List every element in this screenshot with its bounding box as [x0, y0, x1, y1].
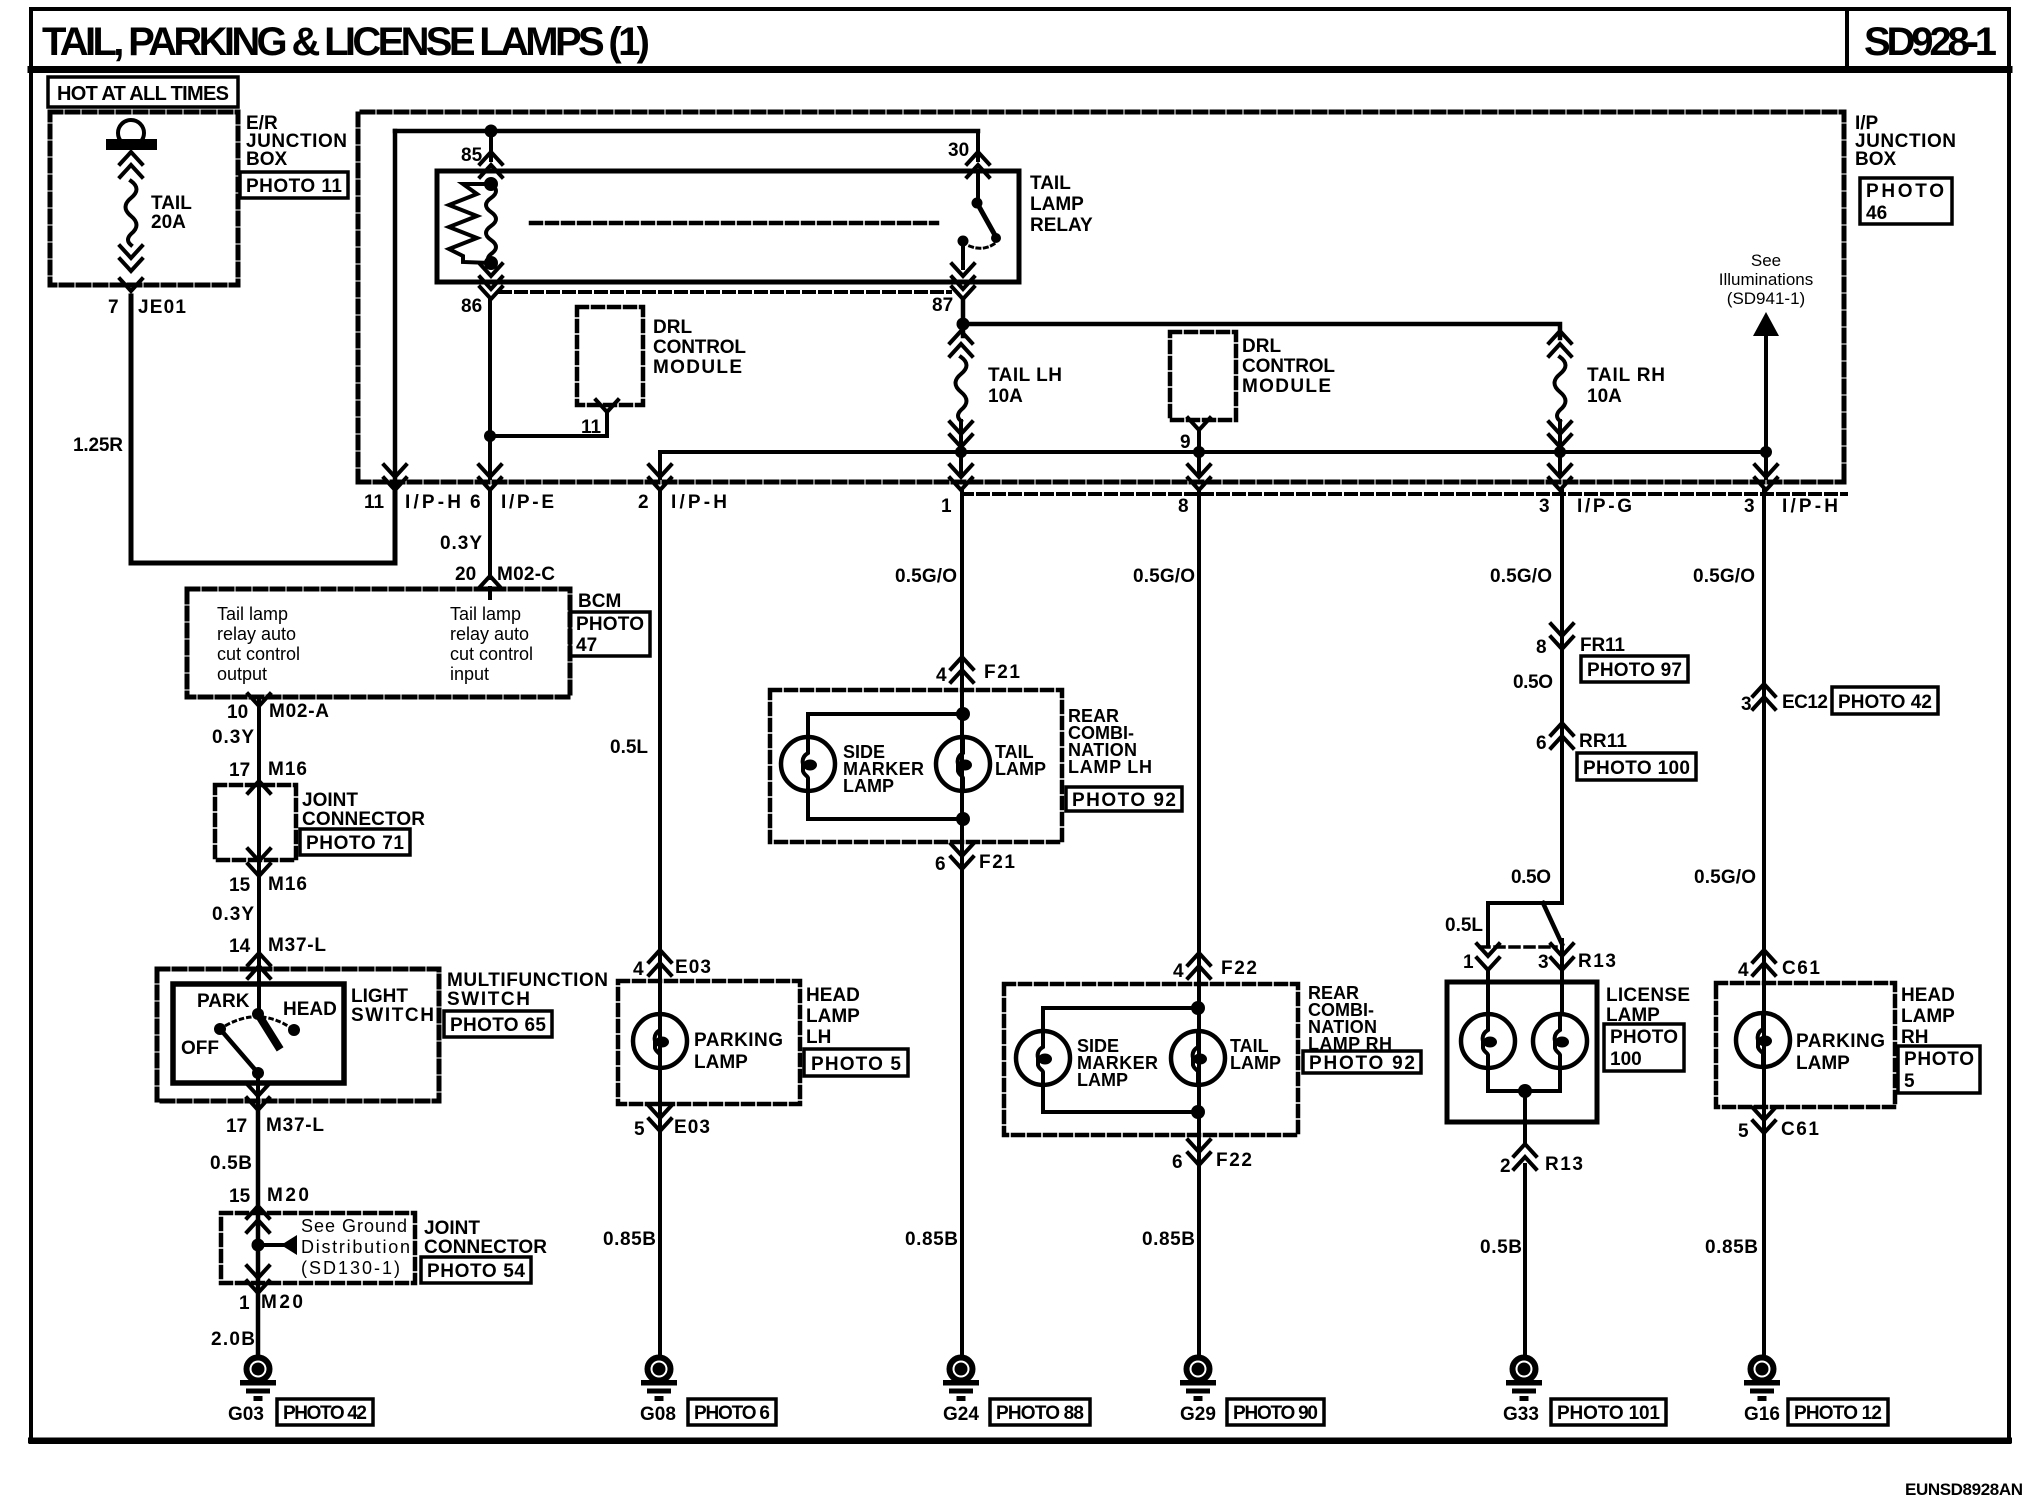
connector 20 M02-C [455, 564, 555, 588]
label 0.5G/O col4 [1133, 566, 1195, 587]
svg-text:14: 14 [229, 936, 251, 957]
label MULTIFUNCTION SWITCH [447, 970, 608, 1010]
label TAIL LAMP RH [1230, 1036, 1281, 1073]
multifunction switch box (dashed) [157, 969, 439, 1101]
label 0.5B col5 [1480, 1237, 1522, 1258]
svg-text:100: 100 [1610, 1049, 1642, 1070]
relay pin 87 [932, 264, 974, 316]
svg-text:0.5B: 0.5B [1480, 1237, 1522, 1258]
head lamp LH box (dashed) [618, 981, 800, 1104]
svg-text:6: 6 [1172, 1152, 1183, 1173]
svg-text:R13: R13 [1545, 1154, 1583, 1175]
wires license bulbs [1488, 970, 1562, 1143]
light switch box [173, 984, 344, 1083]
R13 connector dashed edge [1480, 945, 1556, 949]
label E/R JUNCTION BOX [246, 113, 347, 170]
ground G33 [1503, 1358, 1542, 1426]
svg-text:PHOTO 54: PHOTO 54 [427, 1261, 525, 1282]
label TAIL LAMP [995, 742, 1046, 779]
svg-text:LAMP: LAMP [694, 1052, 748, 1073]
wire top feed bus [395, 131, 978, 478]
node RH branch bottom [1191, 1105, 1205, 1119]
svg-text:0.5G/O: 0.5G/O [1693, 566, 1755, 587]
svg-text:PHOTO: PHOTO [1610, 1027, 1678, 1048]
svg-text:4: 4 [936, 665, 947, 686]
svg-text:CONTROL: CONTROL [1242, 356, 1335, 377]
connector 4 C61 [1738, 950, 1820, 981]
svg-text:0.5G/O: 0.5G/O [1490, 566, 1552, 587]
svg-text:6: 6 [1536, 733, 1547, 754]
ground G24 [943, 1358, 979, 1426]
wire DRL1 pin11 to node [490, 412, 607, 436]
svg-text:E03: E03 [674, 1117, 710, 1138]
node license junction [1518, 1084, 1532, 1098]
label 0.3Y second [212, 904, 254, 925]
sheet number SD928-1 [1864, 20, 1997, 64]
E/R junction box (dashed) [50, 112, 238, 285]
svg-text:0.5G/O: 0.5G/O [1694, 867, 1756, 888]
label 0.5G/O col5 [1490, 566, 1552, 587]
svg-text:SWITCH: SWITCH [447, 989, 530, 1010]
svg-text:15: 15 [229, 1186, 251, 1207]
svg-text:PHOTO 71: PHOTO 71 [306, 833, 404, 854]
dashed connector row lower edge [962, 492, 1846, 496]
svg-text:MODULE: MODULE [1242, 376, 1331, 397]
svg-text:0.5O: 0.5O [1511, 867, 1551, 888]
svg-text:PHOTO 92: PHOTO 92 [1072, 790, 1176, 811]
label LIGHT SWITCH [351, 986, 434, 1026]
svg-text:PHOTO 92: PHOTO 92 [1309, 1053, 1415, 1074]
svg-text:EUNSD8928AN: EUNSD8928AN [1905, 1480, 2023, 1499]
svg-text:M02-C: M02-C [497, 564, 555, 585]
connector 6 I/P-E [470, 465, 554, 513]
connector 5 E03 [634, 1106, 710, 1140]
label PHOTO 71 [300, 829, 410, 855]
label PHOTO 88 [990, 1399, 1090, 1425]
svg-text:PHOTO 5: PHOTO 5 [811, 1054, 901, 1075]
relay pin 30 [948, 131, 989, 177]
joint connector 2 box (dashed) [221, 1213, 415, 1283]
label PHOTO 100 license [1604, 1024, 1684, 1071]
svg-text:MODULE: MODULE [653, 357, 742, 378]
svg-text:PARKING: PARKING [1796, 1031, 1885, 1052]
label HEAD LAMP LH [806, 985, 860, 1048]
connector 14 M37-L [229, 935, 326, 957]
svg-text:BCM: BCM [578, 591, 621, 612]
svg-text:M20: M20 [261, 1292, 303, 1313]
lamp license left [1461, 1014, 1515, 1068]
svg-text:PHOTO: PHOTO [576, 614, 644, 635]
svg-text:1: 1 [239, 1293, 250, 1314]
node bus illuminations [1760, 446, 1772, 458]
svg-text:0.5G/O: 0.5G/O [895, 566, 957, 587]
svg-text:Tail lamp: Tail lamp [450, 604, 521, 624]
svg-text:E03: E03 [675, 957, 711, 978]
svg-text:15: 15 [229, 875, 251, 896]
svg-text:LAMP: LAMP [995, 759, 1046, 779]
fuse TAIL LH 10A [950, 331, 972, 452]
svg-text:HEAD: HEAD [283, 999, 337, 1020]
label 0.5G/O [895, 566, 957, 587]
connector 1 R13 [1463, 944, 1499, 973]
ground G16 [1744, 1358, 1780, 1426]
svg-text:TAIL RH: TAIL RH [1587, 365, 1665, 386]
svg-text:C61: C61 [1781, 1119, 1819, 1140]
svg-text:PHOTO 65: PHOTO 65 [450, 1015, 546, 1036]
svg-text:PHOTO 6: PHOTO 6 [694, 1403, 770, 1424]
I/P junction box (dashed) [358, 112, 1844, 482]
label PHOTO 46 [1860, 178, 1952, 224]
svg-text:output: output [217, 664, 267, 684]
svg-text:47: 47 [576, 635, 597, 656]
label I/P JUNCTION BOX [1855, 113, 1956, 170]
svg-text:LAMP: LAMP [1901, 1006, 1955, 1027]
connector 15 M20 [229, 1185, 309, 1207]
svg-text:10A: 10A [1587, 386, 1622, 407]
label PHOTO 54 [421, 1257, 531, 1283]
svg-text:2.0B: 2.0B [211, 1329, 255, 1350]
svg-text:(SD130-1): (SD130-1) [301, 1258, 400, 1278]
fuse TAIL RH 10A [1549, 331, 1571, 452]
svg-text:11: 11 [364, 492, 385, 513]
connector 11 I/P-H [364, 465, 461, 513]
svg-text:PHOTO 11: PHOTO 11 [246, 176, 342, 197]
svg-text:LAMP LH: LAMP LH [1068, 757, 1152, 777]
svg-text:PHOTO 101: PHOTO 101 [1557, 1403, 1660, 1424]
label PHOTO 100 [1577, 753, 1696, 780]
lamp license right [1533, 1014, 1587, 1068]
svg-text:TAIL: TAIL [1030, 173, 1071, 194]
node ground distribution tap [252, 1235, 298, 1255]
svg-text:20A: 20A [151, 212, 186, 233]
svg-text:HEAD: HEAD [1901, 985, 1955, 1006]
connector 5 C61 [1738, 1108, 1819, 1142]
svg-text:See: See [1751, 251, 1781, 270]
lamp PARKING LAMP LH [633, 1014, 687, 1068]
label REAR COMBINATION LAMP RH [1308, 983, 1392, 1054]
node LH branch bottom [956, 812, 970, 826]
joint connector arrows [248, 781, 270, 876]
svg-text:Illuminations: Illuminations [1719, 270, 1814, 289]
svg-text:F21: F21 [979, 852, 1015, 873]
connector 2 I/P-H [638, 465, 727, 513]
svg-text:0.3Y: 0.3Y [440, 533, 482, 554]
svg-text:0.5L: 0.5L [610, 737, 648, 758]
connector 6 F21 [935, 844, 1015, 875]
svg-text:0.5B: 0.5B [210, 1153, 252, 1174]
svg-text:5: 5 [1904, 1071, 1915, 1092]
wire BCM output down [257, 697, 261, 966]
svg-text:EC12: EC12 [1782, 692, 1828, 713]
svg-text:LAMP: LAMP [1230, 1053, 1281, 1073]
svg-text:I/P-E: I/P-E [501, 492, 554, 513]
wire side marker LH branch [808, 714, 963, 819]
svg-text:RELAY: RELAY [1030, 215, 1093, 236]
node LH branch top [956, 707, 970, 721]
svg-text:OFF: OFF [181, 1038, 219, 1059]
svg-text:PHOTO: PHOTO [1904, 1049, 1974, 1070]
svg-text:F21: F21 [984, 662, 1020, 683]
connector 3 EC12 [1741, 684, 1828, 715]
svg-text:DRL: DRL [1242, 336, 1281, 357]
label JOINT CONNECTOR 2 [424, 1218, 547, 1258]
svg-text:input: input [450, 664, 489, 684]
svg-text:0.85B: 0.85B [1705, 1237, 1758, 1258]
wire license feed [1560, 490, 1564, 903]
svg-text:LAMP: LAMP [843, 776, 894, 796]
node bus tail LH [955, 446, 967, 458]
label PHOTO 97 [1581, 656, 1688, 682]
svg-text:85: 85 [461, 145, 483, 166]
svg-text:HEAD: HEAD [806, 985, 860, 1006]
connector 1 M20 [239, 1292, 303, 1314]
svg-text:0.5G/O: 0.5G/O [1133, 566, 1195, 587]
relay armature link (dashed) [531, 221, 937, 226]
svg-text:LAMP: LAMP [1796, 1053, 1850, 1074]
label PHOTO 11 [240, 172, 348, 198]
head lamp RH box (dashed) [1716, 983, 1895, 1107]
svg-text:relay auto: relay auto [450, 624, 529, 644]
label PHOTO 12 [1788, 1399, 1888, 1425]
connector 17 M37-L [226, 1115, 324, 1137]
svg-text:LIGHT: LIGHT [351, 986, 408, 1007]
svg-text:LAMP: LAMP [806, 1006, 860, 1027]
svg-text:0.3Y: 0.3Y [212, 904, 254, 925]
svg-text:MULTIFUNCTION: MULTIFUNCTION [447, 970, 608, 991]
ground G03 [228, 1358, 276, 1426]
svg-text:SD928-1: SD928-1 [1864, 20, 1997, 64]
svg-text:JOINT: JOINT [302, 790, 358, 811]
connector 17 M16 [229, 759, 307, 781]
svg-text:I/P-G: I/P-G [1577, 496, 1632, 517]
svg-text:M37-L: M37-L [266, 1115, 324, 1136]
svg-text:7: 7 [108, 297, 119, 318]
connector 1 (tail LH) [941, 452, 972, 517]
svg-text:PHOTO 100: PHOTO 100 [1583, 758, 1690, 779]
label JOINT CONNECTOR [302, 790, 425, 830]
svg-text:0.85B: 0.85B [603, 1229, 656, 1250]
connector 4 F21 [936, 657, 1020, 686]
svg-text:LICENSE: LICENSE [1606, 985, 1690, 1006]
svg-text:I/P-H: I/P-H [1782, 496, 1838, 517]
svg-text:TAIL LH: TAIL LH [988, 365, 1062, 386]
label PHOTO 6 [688, 1399, 776, 1425]
relay switch contacts [958, 172, 1002, 268]
lamp SIDE MARKER LAMP RH [1016, 1031, 1070, 1085]
svg-text:17: 17 [229, 760, 250, 781]
license lamp box [1447, 982, 1597, 1122]
svg-text:5: 5 [1738, 1121, 1749, 1142]
DRL control module 1 (dashed) [577, 307, 643, 405]
wire 0.3Y to BCM [488, 490, 492, 578]
svg-text:17: 17 [226, 1116, 247, 1137]
svg-text:20: 20 [455, 564, 476, 585]
label 0.5L [610, 737, 648, 758]
rear combination lamp RH box (dashed) [1004, 984, 1298, 1135]
svg-text:1: 1 [1463, 952, 1474, 973]
label 0.85B [905, 1229, 958, 1250]
svg-text:LAMP: LAMP [1030, 194, 1084, 215]
svg-text:2: 2 [638, 492, 649, 513]
lamp TAIL LAMP LH [936, 737, 990, 791]
svg-text:G24: G24 [943, 1404, 979, 1425]
svg-text:PHOTO 12: PHOTO 12 [1794, 1403, 1882, 1424]
svg-text:10: 10 [227, 702, 248, 723]
label PHOTO 42 [277, 1399, 373, 1425]
svg-text:8: 8 [1178, 496, 1189, 517]
svg-text:CONNECTOR: CONNECTOR [302, 809, 425, 830]
svg-text:Distribution: Distribution [301, 1237, 410, 1257]
light switch mechanism [214, 969, 300, 1101]
wire BCM input stub [488, 588, 492, 598]
label PARKING LAMP [694, 1030, 783, 1073]
svg-text:1.25R: 1.25R [73, 435, 123, 456]
label REAR COMBINATION LAMP LH [1068, 706, 1152, 777]
label PHOTO 92 LH [1066, 787, 1182, 811]
svg-text:DRL: DRL [653, 317, 692, 338]
label 0.85B col4 [1142, 1229, 1195, 1250]
svg-text:3: 3 [1539, 496, 1550, 517]
svg-text:0.85B: 0.85B [1142, 1229, 1195, 1250]
relay box TAIL LAMP RELAY [437, 171, 1019, 282]
label 0.85B [603, 1229, 656, 1250]
svg-text:87: 87 [932, 295, 953, 316]
svg-text:46: 46 [1866, 203, 1887, 224]
label TAIL 20A [151, 193, 192, 233]
svg-text:(SD941-1): (SD941-1) [1727, 289, 1805, 308]
switch exit arrows [247, 1084, 269, 1110]
svg-text:3: 3 [1741, 694, 1752, 715]
label PHOTO 5 [804, 1049, 908, 1076]
svg-text:0.3Y: 0.3Y [212, 727, 254, 748]
relay coil winding [486, 179, 496, 268]
connector 10 M02-A [227, 694, 329, 723]
svg-text:2: 2 [1500, 1156, 1511, 1177]
DRL2 pin 9 [1180, 418, 1210, 453]
svg-text:TAIL: TAIL [151, 193, 192, 214]
connector 3 I/P-H [1744, 452, 1838, 517]
svg-text:4: 4 [1173, 961, 1184, 982]
node junction 86/DRL [484, 430, 496, 442]
BCM box (dashed) [187, 589, 570, 697]
node bus DRL2 [1193, 446, 1205, 458]
svg-text:PHOTO 42: PHOTO 42 [283, 1403, 367, 1424]
svg-text:F22: F22 [1216, 1150, 1252, 1171]
connector 2 R13 [1500, 1144, 1583, 1177]
svg-text:F22: F22 [1221, 958, 1257, 979]
label PHOTO 90 [1227, 1399, 1324, 1425]
svg-text:10A: 10A [988, 386, 1023, 407]
wire side marker RH branch [1043, 1008, 1198, 1112]
label PHOTO 47 [570, 612, 650, 656]
svg-text:PHOTO 97: PHOTO 97 [1587, 660, 1682, 681]
wire switch to ground [256, 1101, 261, 1356]
connector 6 RR11 [1536, 723, 1627, 754]
svg-text:4: 4 [633, 959, 644, 980]
svg-text:PARK: PARK [197, 991, 250, 1012]
svg-text:M16: M16 [268, 759, 307, 780]
lamp PARKING LAMP RH [1736, 1013, 1790, 1067]
svg-text:CONNECTOR: CONNECTOR [424, 1237, 547, 1258]
connector 15 M16 [229, 874, 307, 896]
svg-text:M02-A: M02-A [269, 701, 329, 722]
svg-text:8: 8 [1536, 637, 1547, 658]
svg-text:FR11: FR11 [1580, 635, 1625, 656]
label PHOTO 5 RH [1898, 1046, 1980, 1093]
svg-text:CONTROL: CONTROL [653, 337, 746, 358]
label 1.25R [73, 435, 123, 456]
svg-text:M20: M20 [267, 1185, 309, 1206]
svg-text:0.5O: 0.5O [1513, 672, 1553, 693]
svg-text:I/P-H: I/P-H [405, 492, 461, 513]
label PHOTO 92 RH [1303, 1051, 1421, 1074]
lamp TAIL LAMP RH [1171, 1031, 1225, 1085]
wire lamp feed bus [660, 452, 1766, 478]
svg-text:6: 6 [935, 854, 946, 875]
svg-text:9: 9 [1180, 432, 1191, 453]
svg-text:JE01: JE01 [138, 297, 186, 318]
svg-text:See Ground: See Ground [301, 1216, 407, 1236]
lamp SIDE MARKER LAMP LH [781, 737, 835, 791]
svg-text:BOX: BOX [1855, 149, 1897, 170]
svg-text:0.85B: 0.85B [905, 1229, 958, 1250]
node RH branch top [1191, 1001, 1205, 1015]
svg-text:LH: LH [806, 1027, 831, 1048]
svg-text:cut control: cut control [450, 644, 533, 664]
label BCM [578, 591, 621, 612]
svg-text:1: 1 [941, 496, 952, 517]
switch entry arrows [248, 953, 270, 978]
label 0.85B col6 [1705, 1237, 1758, 1258]
connector 3 I/P-G [1539, 452, 1632, 517]
svg-text:BOX: BOX [246, 149, 288, 170]
label 0.5L col5 [1445, 915, 1483, 936]
wire 1.25R from JE01 to I/P-H [131, 296, 395, 563]
node junction on bus [485, 125, 498, 138]
svg-text:LAMP: LAMP [1077, 1070, 1128, 1090]
DRL control module 2 (dashed) [1170, 332, 1236, 420]
svg-text:M16: M16 [268, 874, 307, 895]
svg-text:Tail lamp: Tail lamp [217, 604, 288, 624]
wire license branch [1488, 903, 1562, 976]
label 0.5G/O col6 [1693, 566, 1755, 587]
svg-text:G16: G16 [1744, 1404, 1780, 1425]
svg-text:30: 30 [948, 140, 969, 161]
label 0.5O second [1511, 867, 1551, 888]
wire parking lamp LH column [658, 490, 662, 1356]
label SIDE MARKER LAMP [843, 742, 924, 796]
svg-text:G29: G29 [1180, 1404, 1216, 1425]
wire license to ground [1523, 1165, 1527, 1356]
svg-text:G03: G03 [228, 1404, 264, 1425]
note See Illuminations [1719, 251, 1814, 308]
label DRL CONTROL MODULE [653, 317, 746, 378]
label DRL CONTROL MODULE 2 [1242, 336, 1335, 397]
joint connector box (dashed) [215, 785, 296, 860]
svg-text:JOINT: JOINT [424, 1218, 480, 1239]
label TAIL LAMP RELAY [1030, 173, 1093, 236]
relay connector dashed edge [500, 290, 950, 294]
svg-text:TAIL, PARKING & LICENSE LAMPS: TAIL, PARKING & LICENSE LAMPS (1) [42, 20, 650, 64]
joint connector 2 arrows [247, 1206, 269, 1293]
label 2.0B [211, 1329, 255, 1350]
BCM text output [217, 604, 300, 684]
title TAIL, PARKING & LICENSE LAMPS (1) [42, 20, 650, 64]
svg-text:PHOTO 42: PHOTO 42 [1838, 692, 1932, 713]
svg-text:3: 3 [1538, 952, 1549, 973]
svg-text:G33: G33 [1503, 1404, 1539, 1425]
pin 7 JE01 [108, 297, 186, 318]
